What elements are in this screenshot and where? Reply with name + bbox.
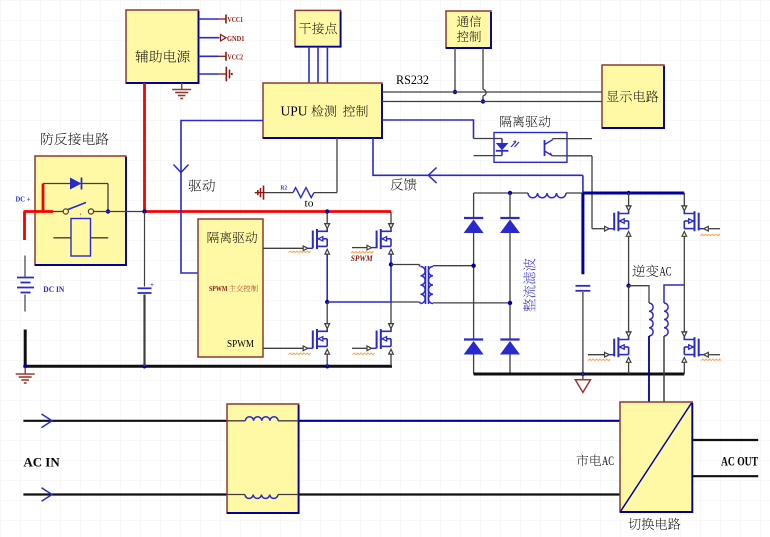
label 隔离驱动 (optocoupler) [500,115,550,127]
label 反馈 [391,178,417,190]
label 逆变AC [632,264,671,279]
svg-text:AC: AC [602,454,614,468]
svg-text:AC OUT: AC OUT [721,455,758,469]
wire inverter rail corner [682,192,686,195]
pin battery symbol output [199,67,232,82]
capacitor C2 bus [576,286,591,374]
block 显示电路 (display circuit) [602,65,664,128]
label DC IN [43,284,65,294]
diode D5 (bottom-right) [500,340,520,375]
block U1 UPU 检测 控制 (UPU detect & control) [263,83,382,138]
block 通信控制 (communication control) [446,11,491,48]
transistor Q3 (H-bridge lower-left) [263,324,330,367]
capacitor C1 bus [138,212,155,367]
wire DC bus navy rail [583,191,684,274]
wire rectifier top [474,191,528,195]
wire AC OUT neutral [692,475,758,477]
svg-text:GND1: GND1 [227,34,245,43]
wire H-bridge right leg [389,254,393,323]
wire 反馈 feedback [373,138,583,193]
wire primary top [391,264,420,266]
block U2 辅助电源 (auxiliary power supply) [126,10,199,83]
resistor R2 [265,185,337,198]
wire red positive rail [142,209,391,213]
svg-text:VCC1: VCC1 [228,15,244,24]
svg-text:+: + [150,281,154,289]
transistor Q2 (H-bridge upper-right) [351,212,393,255]
transistor Q6 (inverter upper-right) [682,193,720,236]
wires 通信控制 down to RS232 pair [453,48,486,104]
transistor Q8 (inverter lower-right) [682,332,721,374]
diode D4 (bottom-left) [464,340,484,375]
block EMI filter [227,404,299,513]
wire 驱动 drive from UPU [174,121,264,274]
label 整流滤波 (vertical) [523,258,536,311]
relay coil K1 [53,219,108,257]
svg-text:VCC2: VCC2 [228,53,244,62]
svg-text:DC IN: DC IN [43,284,65,294]
wire RS232 pair to display [382,92,602,102]
label 防反接电路 [41,133,108,146]
pin GND1 [199,34,245,43]
wire AC line in (top) [23,414,227,428]
block 防反接电路 (reverse-connection protection) [35,156,126,265]
transistor Q4 (H-bridge lower-right) [352,324,393,367]
svg-text:DC +: DC + [16,195,31,204]
ground DC bus (open triangle) [575,374,590,392]
svg-text:AC: AC [660,264,672,279]
transformer T2 (inverter output) [629,285,685,336]
wire AC neutral in (bottom) [23,488,227,502]
optocoupler U3 隔离驱动 [494,133,567,163]
transistor Q5 (inverter upper-left) [592,193,631,236]
wire LED return stub [474,155,503,157]
wire black negative rail (left) [23,330,392,369]
wire filter to switch (black neutral) [299,493,620,495]
transistor Q1 (H-bridge upper-left) [263,209,330,254]
wire optocoupler emitter to inverter gate [567,156,592,229]
svg-text:RS232: RS232 [396,72,429,87]
label to [305,199,314,210]
ground under auxiliary supply [172,83,191,99]
wire filter to switch (navy live) [299,420,620,422]
ground bottom-left [16,368,35,384]
wire T2 secondary down-right [663,336,665,402]
wire optocoupler collector stub [567,138,592,140]
svg-text:AC IN: AC IN [23,456,59,470]
inductor L2 (filter top) [227,417,299,421]
relay switch contact S1 [53,203,145,220]
label DC + [16,195,31,204]
pin VCC2 [199,52,244,62]
wire T2 secondary down-left [648,336,650,402]
label RS232 [396,72,429,87]
svg-text:to: to [305,199,314,210]
diode D2 (top-left) [464,193,484,339]
block 隔离驱动 SPWM controller [198,219,263,357]
block 干接点 (dry contacts) [295,10,341,46]
transistor Q7 (inverter lower-left) [588,332,631,374]
transformer T1 [420,265,511,305]
diode D1 bypass [43,178,110,214]
inductor L1 [528,193,583,198]
svg-text:R2: R2 [281,185,288,192]
svg-text:SPWM: SPWM [209,284,228,293]
label AC IN [23,456,59,470]
battery DC IN [17,256,34,312]
svg-text:SPWM: SPWM [351,254,374,263]
wire rectifier bottom rail [474,372,685,376]
wire inverter left leg [626,236,630,331]
label 驱动 [189,179,215,192]
pin VCC1 [199,15,244,25]
wire AC OUT live [692,439,758,441]
label SPWM (gate) [351,254,374,263]
label 切换电路 [628,518,680,530]
power ground symbol left of R2 [256,186,265,200]
wire H-bridge left leg [325,254,329,323]
wires 干接点 to UPU (3) [309,47,327,83]
label 市电AC [577,454,614,468]
wire red auxiliary supply down [143,83,146,212]
wire inverter right leg [683,236,685,331]
wire UPU to resistor [336,138,338,193]
svg-text:UPU: UPU [281,104,308,119]
wire red DC+ input [24,212,54,241]
block 切换电路 (transfer switch) [620,402,692,512]
label AC OUT [721,455,758,469]
diode D3 (top-right) [500,193,520,339]
wire H-bridge midpoint to primary [327,301,419,303]
wire UPU to optocoupler LED [382,120,502,139]
inductor L3 (filter bottom) [227,495,299,499]
svg-text:SPWM: SPWM [227,338,254,350]
